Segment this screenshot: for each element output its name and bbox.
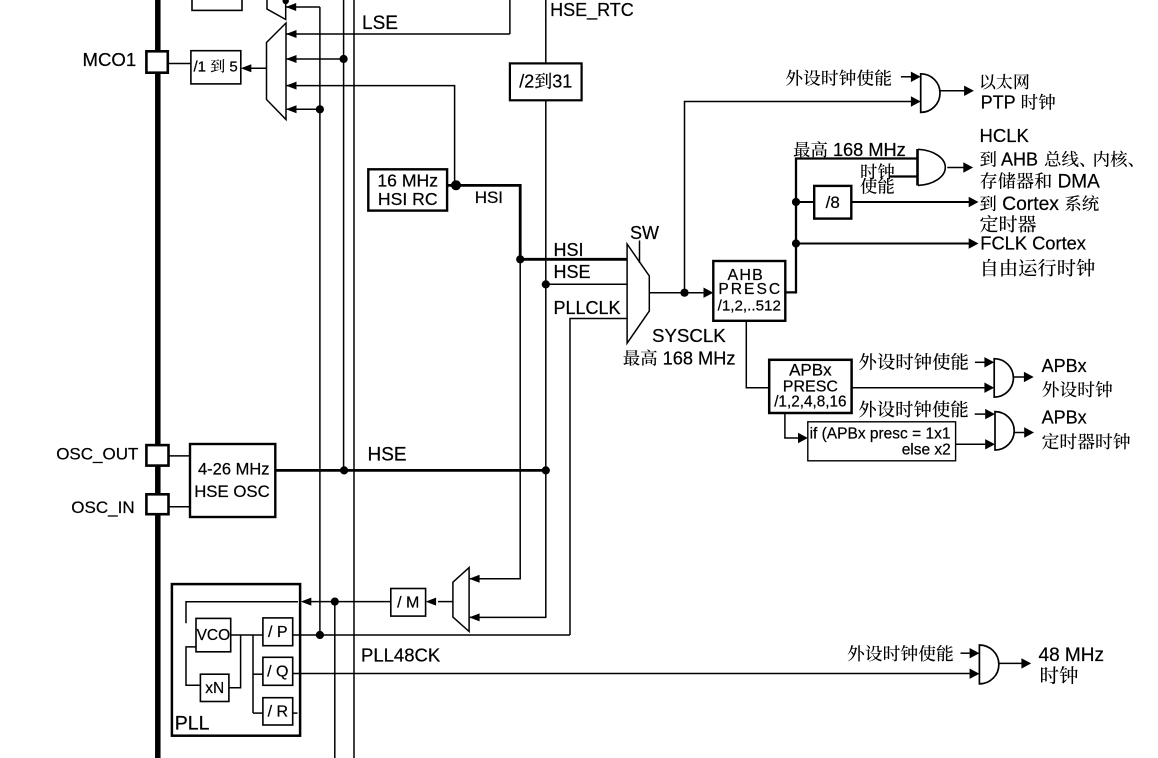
- svg-text:PTP: PTP: [981, 93, 1021, 113]
- svg-text:SW: SW: [630, 223, 659, 243]
- svg-text:HSI RC: HSI RC: [378, 189, 438, 209]
- svg-text:xN: xN: [205, 680, 224, 697]
- svg-text:/1,2,..512: /1,2,..512: [718, 297, 781, 314]
- svg-text:PLLCLK: PLLCLK: [554, 298, 621, 318]
- svg-text:PLL: PLL: [175, 713, 210, 735]
- svg-text:/2: /2: [519, 72, 534, 92]
- svg-text:/ P: / P: [268, 624, 288, 641]
- svg-text:Cortex: Cortex: [997, 194, 1065, 215]
- svg-text:DMA: DMA: [1052, 172, 1100, 193]
- svg-text:PRESC: PRESC: [718, 281, 782, 298]
- svg-text:APBx: APBx: [1042, 408, 1087, 428]
- svg-text:HSE: HSE: [368, 445, 407, 466]
- svg-text:31: 31: [552, 72, 572, 92]
- svg-text:HSI: HSI: [475, 188, 503, 207]
- svg-text:LSE: LSE: [362, 13, 398, 34]
- svg-text:168 MHz: 168 MHz: [828, 140, 906, 160]
- svg-text:SYSCLK: SYSCLK: [652, 325, 726, 346]
- svg-text:APBx: APBx: [1042, 356, 1087, 376]
- svg-text:HSE OSC: HSE OSC: [194, 482, 270, 501]
- svg-text:AHB: AHB: [997, 150, 1043, 170]
- svg-text:else x2: else x2: [902, 442, 951, 459]
- svg-text:/ R: / R: [268, 704, 288, 721]
- svg-text:5: 5: [225, 59, 238, 76]
- svg-text:VCO: VCO: [197, 627, 231, 644]
- svg-text:FCLK Cortex: FCLK Cortex: [980, 233, 1086, 254]
- svg-text:HSI: HSI: [554, 240, 584, 260]
- svg-text:/8: /8: [826, 193, 840, 212]
- svg-text:MCO1: MCO1: [83, 49, 137, 70]
- svg-text:/1,2,4,8,16: /1,2,4,8,16: [774, 394, 846, 411]
- svg-text:if (APBx presc = 1x1: if (APBx presc = 1x1: [810, 426, 951, 443]
- svg-text:HCLK: HCLK: [980, 125, 1030, 146]
- svg-text:HSE_RTC: HSE_RTC: [550, 0, 634, 21]
- svg-text:/ Q: / Q: [267, 664, 288, 681]
- svg-text:OSC_IN: OSC_IN: [71, 498, 134, 517]
- svg-text:4-26 MHz: 4-26 MHz: [198, 460, 270, 478]
- svg-text:PLL48CK: PLL48CK: [361, 645, 441, 666]
- svg-text:16 MHz: 16 MHz: [377, 170, 438, 190]
- svg-text:48 MHz: 48 MHz: [1039, 645, 1104, 666]
- svg-text:/1: /1: [194, 59, 211, 76]
- svg-text:HSE: HSE: [554, 262, 591, 282]
- svg-text:/ M: / M: [397, 595, 419, 612]
- svg-text:APBx: APBx: [789, 361, 832, 380]
- svg-text:OSC_OUT: OSC_OUT: [56, 445, 138, 464]
- svg-text:168 MHz: 168 MHz: [658, 348, 736, 368]
